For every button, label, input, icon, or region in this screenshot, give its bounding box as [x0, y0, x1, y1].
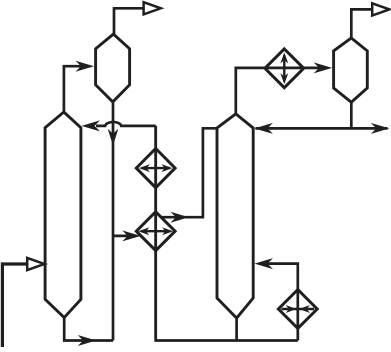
- wire recycle into C1 with crossover hop: [82, 120, 156, 131]
- wire solvent recycle riser through E1 E2: [154, 126, 157, 339]
- heat exchanger E1: [136, 149, 175, 188]
- flash drum V1: [96, 34, 130, 102]
- heat exchanger E4: [278, 290, 317, 329]
- wire reflux and distillate header: [254, 123, 389, 134]
- wire C2 overhead through E3 to V2: [236, 62, 332, 114]
- wire V1 bottoms down line: [108, 102, 119, 341]
- wire C1 bottoms to junction: [64, 318, 113, 346]
- heat exchanger E2: [136, 212, 175, 251]
- wire junction branch into E2: [113, 230, 141, 241]
- wire reboiler loop through E4 into C2: [255, 258, 298, 340]
- column C2: [217, 114, 253, 318]
- wire feed stream into C1: [2, 258, 44, 347]
- flash drum V2: [334, 38, 368, 102]
- column C1: [45, 112, 81, 318]
- wire bottoms header to E4: [156, 126, 298, 341]
- heat exchanger E3: [265, 49, 304, 88]
- wire E2 outlet to C2 top feed: [161, 128, 216, 222]
- wire V2 bottoms stub: [350, 102, 353, 128]
- wire C1 overhead vapor to V1: [64, 61, 94, 112]
- wire C2 bottoms stub: [235, 318, 238, 340]
- wire V2 top product: [351, 3, 389, 38]
- wire V1 top product: [114, 2, 161, 34]
